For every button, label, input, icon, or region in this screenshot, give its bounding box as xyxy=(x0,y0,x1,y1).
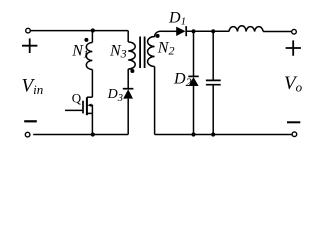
wire: bottom rail primary xyxy=(33,134,128,136)
wire: bottom rail secondary xyxy=(155,134,292,136)
transistor Q1 body stub xyxy=(90,104,93,106)
terminal output + xyxy=(292,29,297,34)
wire: D2 anode to bottom rail xyxy=(193,86,195,135)
diode D1 triangle xyxy=(176,27,185,36)
wire: Q source down to bottom rail xyxy=(91,105,93,135)
polarity + input xyxy=(22,38,37,53)
wire: N1 stem top xyxy=(91,31,93,43)
polarity dot N1 xyxy=(84,38,88,42)
transistor Q1 gate bar xyxy=(82,101,84,114)
wire: capacitor branch upper xyxy=(212,31,214,80)
transistor Q1 source stub xyxy=(87,112,93,114)
wire: N3 bottom to D3 xyxy=(127,69,129,89)
polarity - output xyxy=(287,121,300,123)
diode D1 cathode bar xyxy=(185,26,187,36)
node (D2 bottom) xyxy=(191,132,195,136)
svg-text:Q: Q xyxy=(72,91,82,106)
transistor Q1 drain stub xyxy=(87,96,93,98)
polarity + output xyxy=(286,40,301,55)
wire: D3 anode to bottom rail xyxy=(127,99,129,135)
wire: inductor to output + terminal xyxy=(263,31,292,33)
capacitor C plates xyxy=(206,80,221,84)
wire: top rail primary xyxy=(30,30,128,32)
diode D3 cathode bar xyxy=(123,88,134,90)
node (cap bottom) xyxy=(211,132,215,136)
terminal input + xyxy=(26,28,31,33)
diode D3 triangle xyxy=(123,89,133,98)
wire: N2 bottom to rail xyxy=(154,67,156,135)
wire: D1 cathode to inductor xyxy=(186,30,229,32)
node (cap top) xyxy=(211,29,215,33)
inductor L (output filter) xyxy=(229,26,263,32)
wire: N3 branch top xyxy=(127,31,129,42)
transistor Q1 gate lead xyxy=(65,109,82,111)
terminal input - xyxy=(25,132,30,137)
wire: N1 bottom to Q drain xyxy=(91,70,93,98)
transformer core xyxy=(140,37,145,69)
transistor Q1 body arrow xyxy=(87,104,91,107)
wire: capacitor to bottom rail xyxy=(212,85,214,135)
inductor N2 (secondary winding) xyxy=(148,31,162,66)
node (Q source / bottom rail) xyxy=(91,132,95,136)
node A (top of Q branch) xyxy=(91,28,95,32)
inductor N1 (primary winding) xyxy=(86,43,92,70)
transistor Q1 channel bar xyxy=(86,97,88,115)
inductor N3 (reset winding) xyxy=(128,42,135,69)
polarity dot N3 xyxy=(130,69,134,73)
terminal output - xyxy=(292,132,297,137)
wire: N2 top to D1 anode xyxy=(161,30,176,32)
diode D2 triangle xyxy=(189,77,199,86)
node (D1 cathode / D2) xyxy=(191,29,195,33)
polarity dot N2 xyxy=(156,34,160,38)
diode D2 cathode bar xyxy=(188,75,198,77)
polarity - input xyxy=(24,120,37,122)
wire: D2 branch upper xyxy=(193,31,195,76)
